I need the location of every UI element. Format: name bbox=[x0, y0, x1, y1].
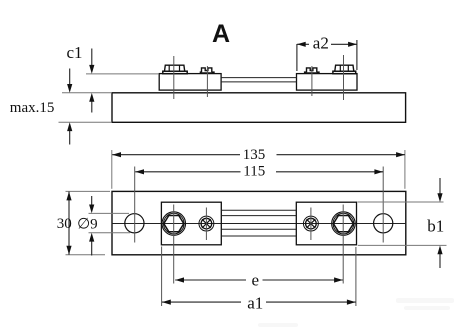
extension lines for b1 (block edges) bbox=[358, 201, 444, 203]
svg-text:a1: a1 bbox=[247, 294, 263, 313]
side view: resistive strips bbox=[221, 77, 297, 79]
plan: hex nut N1 left bbox=[162, 212, 186, 236]
centerline screw P1 bbox=[205, 208, 207, 241]
screw S1 left bbox=[200, 68, 215, 74]
plan: resistive strips bbox=[221, 210, 296, 236]
svg-text:b1: b1 bbox=[427, 217, 444, 236]
extension lines for 115 (hole centerlines) bbox=[134, 167, 136, 243]
dimension 115 bbox=[135, 164, 383, 180]
side view: right terminal block bbox=[297, 74, 358, 91]
plan: horizontal centerline bbox=[112, 223, 406, 225]
plan: right end hole bbox=[374, 214, 393, 233]
centerline bolt B2 bbox=[343, 55, 345, 100]
dimension 30 bbox=[57, 192, 72, 255]
dimension a2 bbox=[297, 33, 357, 71]
svg-text:max.15: max.15 bbox=[10, 100, 55, 116]
extension lines for a1 (block outer edges) bbox=[161, 247, 163, 307]
svg-text:∅9: ∅9 bbox=[77, 217, 98, 233]
centerline nut N2 / e extension bbox=[342, 205, 344, 284]
svg-text:115: 115 bbox=[243, 164, 265, 180]
centerline nut N1 / e extension bbox=[173, 205, 175, 284]
svg-text:A: A bbox=[212, 20, 230, 48]
faint watermark bbox=[258, 298, 454, 327]
extension line bar bottom left bbox=[59, 121, 113, 123]
plan: left end hole bbox=[125, 214, 144, 233]
centerline screw S1 bbox=[206, 66, 208, 97]
bolt B2 hex head right bbox=[333, 65, 356, 74]
centerline screw S2 bbox=[311, 66, 313, 96]
screw S2 right bbox=[304, 68, 320, 74]
bolt B1 hex head left bbox=[163, 65, 187, 74]
plan: screw P2 right bbox=[303, 216, 318, 231]
side view: bar body bbox=[112, 93, 406, 123]
svg-text:e: e bbox=[252, 271, 260, 290]
dimension c1 bbox=[67, 43, 95, 113]
svg-text:135: 135 bbox=[243, 147, 266, 163]
extension lines for diameter 9 (hole tangents) bbox=[89, 212, 130, 214]
centerline bolt B1 bbox=[173, 56, 175, 99]
side view: left terminal block bbox=[159, 74, 221, 91]
extension lines for 135 bbox=[111, 150, 113, 189]
plan: hex nut N2 right bbox=[332, 212, 356, 236]
dimension b1 bbox=[427, 178, 444, 268]
dimension e bbox=[175, 271, 343, 290]
plan view: bar body bbox=[112, 191, 406, 254]
extension line block top bbox=[86, 73, 159, 75]
plan: left terminal block bbox=[161, 202, 221, 245]
dimension dia 9 bbox=[77, 196, 98, 256]
svg-text:30: 30 bbox=[57, 216, 72, 232]
dimension max.15 bbox=[10, 69, 73, 145]
plan: right terminal block bbox=[296, 202, 356, 245]
svg-text:a2: a2 bbox=[313, 33, 329, 52]
svg-text:c1: c1 bbox=[67, 43, 83, 62]
centerline screw P2 bbox=[310, 208, 312, 241]
plan: screw P1 left bbox=[199, 216, 214, 231]
extension line bar top left bbox=[62, 92, 112, 94]
dimension 135 bbox=[112, 147, 405, 163]
extension lines for 30 bbox=[66, 190, 111, 192]
dimension a1 bbox=[162, 294, 356, 313]
